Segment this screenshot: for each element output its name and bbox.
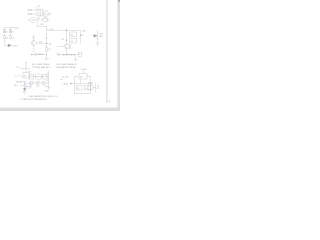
svg-text:RLY: RLY bbox=[14, 85, 18, 87]
junction dot rail bbox=[66, 40, 67, 41]
label coil bbox=[16, 80, 27, 83]
notes line 1 bbox=[28, 95, 58, 98]
wire lamp column A bbox=[3, 28, 5, 30]
label AC bbox=[49, 12, 52, 15]
junction dot bus bbox=[70, 83, 71, 84]
node 115V feed wire bbox=[4, 27, 13, 29]
lamp DS2 bbox=[9, 30, 11, 33]
label S1 bbox=[37, 18, 40, 20]
caption note mark bbox=[84, 68, 87, 71]
transistor Q1 bbox=[31, 40, 36, 45]
wire F2 to T1 bbox=[32, 13, 37, 15]
label node bbox=[49, 43, 52, 45]
svg-text:RETURN BUS: RETURN BUS bbox=[62, 54, 76, 56]
caption figure 1 bbox=[32, 63, 51, 69]
wire supply bus B bbox=[47, 30, 67, 32]
wire F1 to T1 bbox=[32, 9, 37, 11]
svg-text:24 VDC: 24 VDC bbox=[62, 77, 70, 79]
node junction dot bbox=[46, 43, 47, 44]
tap labels bbox=[28, 86, 47, 88]
post J1 bbox=[95, 83, 97, 92]
wire F1 lead bbox=[27, 9, 29, 11]
svg-text:FIG 2. AMP STAGE W/: FIG 2. AMP STAGE W/ bbox=[56, 63, 77, 66]
ground symbol right bbox=[96, 42, 100, 44]
wire K3 branch bbox=[20, 85, 25, 87]
svg-text:OUT: OUT bbox=[88, 83, 93, 85]
svg-text:RELAY 24V: RELAY 24V bbox=[16, 80, 27, 83]
resistor R4 bbox=[70, 32, 77, 36]
ground lug G2 bbox=[57, 53, 60, 56]
transistor Q1 label bbox=[32, 37, 36, 39]
filter C2 box bbox=[84, 85, 90, 90]
sheet frame right border bbox=[106, 0, 108, 103]
meter M1 bbox=[30, 17, 35, 22]
wire meter to box bbox=[36, 19, 44, 21]
resistor R1 bbox=[45, 47, 47, 51]
lamp DS1 bbox=[3, 30, 5, 33]
wire T1 top feed bbox=[36, 7, 38, 10]
wire to diode CR2 bbox=[3, 39, 5, 46]
bus stub bbox=[70, 82, 72, 84]
svg-text:CL3: CL3 bbox=[44, 86, 47, 88]
diode CR4 bbox=[23, 88, 26, 90]
wire Q1 collector bbox=[33, 35, 35, 41]
scan background bottom band bbox=[0, 108, 120, 111]
wire K2 right bbox=[87, 75, 91, 77]
svg-text:R3: R3 bbox=[61, 39, 63, 41]
svg-text:GND1: GND1 bbox=[38, 54, 44, 56]
label R3 bbox=[61, 39, 63, 41]
tap 2 bbox=[36, 82, 39, 85]
psu label bbox=[28, 72, 31, 74]
caption figure 2 bbox=[56, 63, 77, 69]
filter C1 box bbox=[76, 85, 82, 90]
resistor R5 bbox=[70, 39, 77, 43]
wire rail lower bbox=[46, 51, 48, 55]
wire loop bottom bbox=[75, 93, 91, 95]
wire lamp column B bbox=[10, 28, 12, 30]
transformer T1 box bbox=[37, 10, 43, 17]
output box J1 bbox=[88, 85, 93, 90]
coil K1 box bbox=[23, 72, 29, 78]
svg-text:CL2: CL2 bbox=[36, 86, 39, 88]
meter M2 bbox=[35, 74, 41, 80]
svg-text:1. ALL RESISTORS 1/4W 5% CC: 1. ALL RESISTORS 1/4W 5% CC bbox=[28, 95, 58, 98]
wire bottom rail left circuit bbox=[32, 54, 47, 56]
wire R5 drop bbox=[80, 31, 82, 44]
bus label bbox=[62, 83, 69, 85]
junction dot bottom bbox=[31, 54, 32, 55]
diode CR3 wire bbox=[93, 35, 94, 37]
wire bottom rail right circuit bbox=[58, 54, 80, 56]
ground stub left amp bbox=[46, 55, 48, 59]
lower rail psu bbox=[29, 82, 49, 84]
tap 3 bbox=[42, 82, 45, 85]
wire meter stub bbox=[27, 19, 30, 21]
ground symbol K3 bbox=[23, 91, 27, 93]
wire feed A bbox=[37, 26, 46, 28]
wire Q2 emitter bbox=[66, 49, 68, 55]
wire loop right bbox=[90, 84, 92, 94]
rail riser bbox=[48, 71, 50, 88]
wire Q1 base to node bbox=[36, 42, 46, 44]
svg-text:FEEDBACK DIVIDER: FEEDBACK DIVIDER bbox=[56, 66, 76, 69]
riser label bbox=[44, 91, 49, 93]
wire loop left bbox=[74, 84, 76, 94]
relay K1 label bbox=[16, 66, 19, 68]
transformer T1 label bbox=[38, 6, 41, 8]
ground lug G1 bbox=[35, 53, 38, 56]
label feed bbox=[40, 24, 44, 26]
scan background right band bbox=[117, 0, 120, 111]
main rail right circuit bbox=[66, 29, 68, 44]
svg-text:FIG 1. AMP STAGE: FIG 1. AMP STAGE bbox=[32, 63, 50, 66]
ground hatch riser bbox=[47, 87, 50, 89]
wire K2 left bbox=[75, 75, 79, 77]
fuse F1 bbox=[29, 9, 32, 11]
switch S1 box bbox=[43, 18, 47, 21]
rectifier CR1 box bbox=[44, 11, 48, 16]
wire K1 feed bbox=[25, 63, 27, 73]
diode CR2 bbox=[8, 44, 11, 47]
wire K2 coil bottom lead bbox=[80, 79, 82, 84]
svg-text:CL1: CL1 bbox=[28, 86, 31, 88]
tick rail top bbox=[46, 38, 47, 39]
diode CR3 bbox=[94, 34, 97, 37]
label bus B bbox=[49, 29, 54, 31]
bus lower bbox=[71, 83, 91, 85]
lamp DS4 bbox=[9, 36, 11, 39]
wire K3 rail bbox=[24, 82, 26, 88]
svg-text:W: W bbox=[44, 14, 46, 16]
label Q2 bbox=[69, 45, 73, 47]
wire J1 bbox=[93, 86, 96, 88]
wire top to R5 bbox=[67, 30, 81, 32]
wire Q1 emitter bbox=[33, 46, 35, 52]
wire Q2 base bbox=[57, 45, 64, 47]
svg-text:S1: S1 bbox=[44, 17, 46, 19]
fuse F2 bbox=[29, 13, 32, 15]
relay K3 label bbox=[14, 85, 18, 87]
svg-text:+24V: +24V bbox=[49, 29, 54, 31]
svg-text:COM: COM bbox=[44, 91, 49, 93]
svg-text:115V: 115V bbox=[14, 27, 19, 29]
svg-text:TYPICAL BIAS NET: TYPICAL BIAS NET bbox=[32, 66, 51, 69]
rail psu bbox=[29, 76, 49, 78]
wire K1 branch bbox=[20, 68, 30, 70]
ground stub right amp bbox=[75, 55, 77, 60]
resistor R8 bbox=[29, 74, 33, 79]
label R6 bbox=[80, 35, 84, 37]
notes line 2 bbox=[20, 98, 47, 101]
scan corner dark spot top-right bbox=[118, 0, 120, 2]
label base wire bbox=[39, 41, 43, 43]
svg-text:2. CAPS IN UF UNLESS NTD: 2. CAPS IN UF UNLESS NTD bbox=[20, 98, 47, 101]
contact S2 bbox=[15, 75, 18, 77]
resistor R9 bbox=[43, 74, 47, 79]
wire right rail upper bbox=[46, 27, 48, 48]
coil K2 box bbox=[79, 73, 87, 79]
junction dot top wire bbox=[66, 30, 67, 31]
svg-text:C BUS: C BUS bbox=[62, 83, 69, 85]
wire F2 lead bbox=[27, 13, 29, 15]
relay K2 label bbox=[62, 77, 70, 79]
transistor Q2 bbox=[64, 44, 69, 49]
tap 1 bbox=[30, 82, 33, 85]
terminal box TB1 bbox=[78, 53, 82, 57]
output label bbox=[88, 83, 93, 85]
wire K2 feed bbox=[83, 70, 85, 73]
wire CR3 rail bbox=[97, 30, 99, 43]
wire drop from switch bbox=[36, 21, 38, 27]
lamp DS3 bbox=[3, 36, 5, 39]
coil K3 box bbox=[25, 83, 31, 88]
